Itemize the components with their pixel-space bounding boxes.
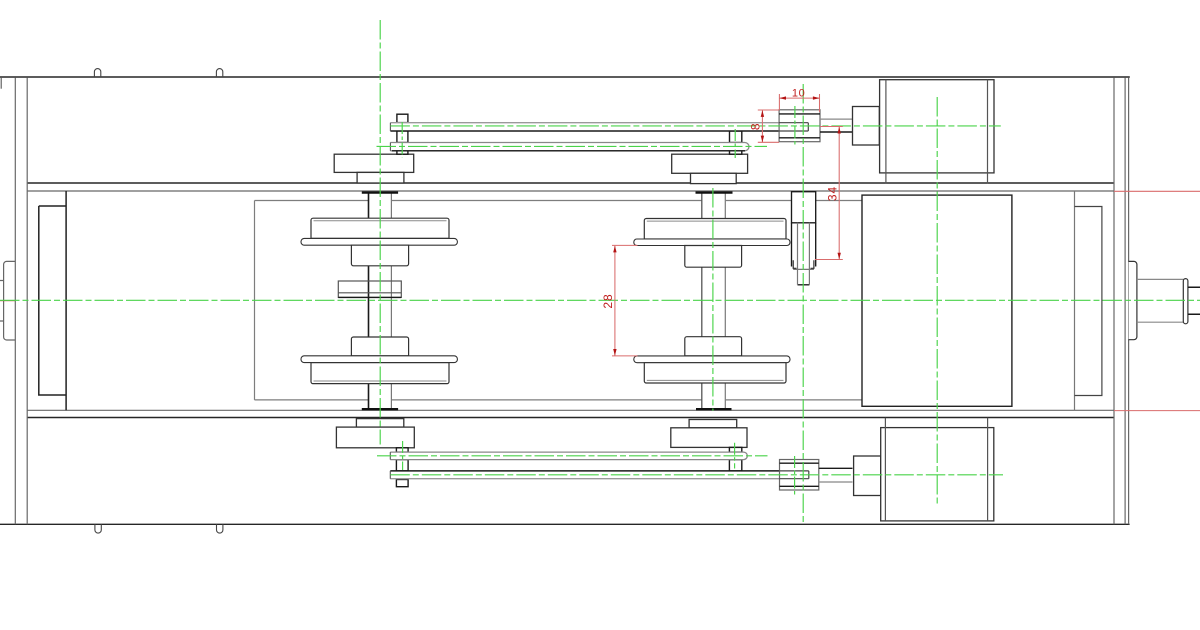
- svg-text:10: 10: [792, 87, 805, 99]
- svg-text:28: 28: [601, 293, 615, 308]
- svg-text:8: 8: [748, 122, 762, 130]
- svg-text:34: 34: [825, 186, 839, 201]
